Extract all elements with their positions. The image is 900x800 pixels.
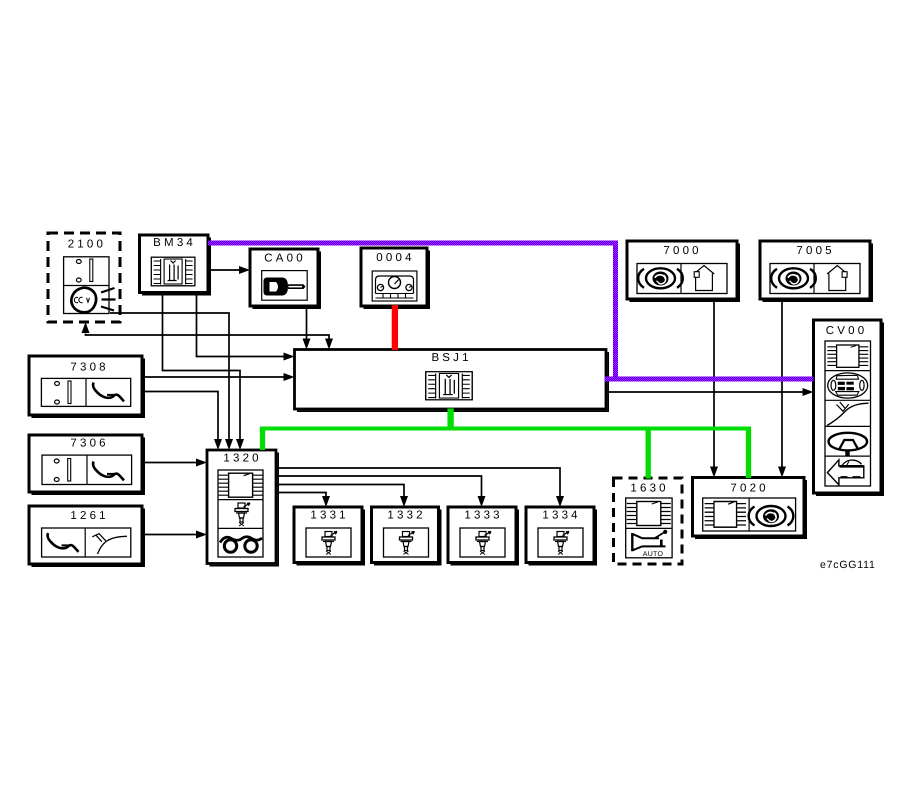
- svg-text:BM34: BM34: [153, 237, 196, 249]
- svg-text:1320: 1320: [223, 453, 261, 465]
- wire 1320 to injector 1333: [276, 476, 486, 507]
- siren control unit 7020: [693, 478, 807, 539]
- bonnet switch unit 1261: [29, 506, 144, 566]
- fuel injector 1331: [294, 507, 364, 565]
- CAN wire (violet) BM34 / BSJ1 / CV00: [208, 241, 814, 380]
- svg-text:1261: 1261: [70, 510, 108, 522]
- CAN wire (green) BSJ1 to 1320 / 1630 / 7020: [260, 409, 751, 479]
- fuel injector 1332: [372, 507, 441, 565]
- wire 7308 to BSJ1 (left pin 2): [142, 373, 295, 381]
- svg-text:CV00: CV00: [826, 325, 868, 337]
- wire 1320 to injector 1331: [276, 493, 330, 508]
- wire 7005 to 7020: [778, 299, 786, 478]
- svg-text:e7cGG111: e7cGG111: [820, 559, 876, 571]
- svg-text:1333: 1333: [464, 510, 502, 522]
- svg-text:7308: 7308: [70, 362, 108, 374]
- instrument cluster 0004: [361, 248, 429, 308]
- svg-text:7306: 7306: [70, 438, 108, 450]
- svg-text:AUTO: AUTO: [643, 551, 664, 558]
- wire BSJ1 to CV00: [606, 388, 814, 396]
- wire 7306 to 1320 (left pin 1): [142, 459, 207, 467]
- fuel injector 1334: [526, 507, 596, 565]
- svg-text:1331: 1331: [310, 510, 348, 522]
- svg-text:1332: 1332: [387, 510, 425, 522]
- svg-text:1630: 1630: [630, 483, 668, 495]
- engine fusebox / battery unit BM34: [140, 235, 211, 295]
- wire 7308 to 1320 (pin 1): [142, 392, 222, 451]
- door switch unit 7306: [29, 435, 144, 494]
- wire CA00 to BSJ1 (top pin): [303, 306, 311, 350]
- svg-text:0004: 0004: [376, 252, 414, 264]
- wire BM34 to CA00: [208, 266, 250, 274]
- fuel injector 1333: [448, 507, 518, 565]
- anti-theft horn unit 1630 (dashed option box): [614, 478, 683, 564]
- ignition switch CA00: [250, 249, 320, 308]
- door switch unit 7308: [29, 356, 144, 417]
- wire BM34 to BSJ1 (left pin 1): [197, 293, 295, 361]
- engine ECU 1320: [207, 450, 278, 566]
- svg-text:1334: 1334: [542, 510, 580, 522]
- svg-text:7020: 7020: [730, 483, 768, 495]
- wire 2100 to BSJ1 (double arrow link): [82, 322, 334, 350]
- svg-text:CA00: CA00: [264, 253, 306, 265]
- horn / alarm unit 2100 (dashed option box): [48, 233, 120, 322]
- svg-text:BSJ1: BSJ1: [431, 352, 471, 364]
- svg-text:7000: 7000: [663, 245, 701, 257]
- wire 7000 to 7020: [710, 299, 718, 478]
- siren receiver unit 7000: [627, 241, 739, 301]
- svg-text:2100: 2100: [68, 239, 106, 251]
- wire BM34 to 1320 (pin 3): [163, 293, 245, 451]
- svg-text:7005: 7005: [796, 245, 834, 257]
- wire (red) 0004 to BSJ1: [392, 305, 398, 350]
- wire 1261 to 1320 (left pin 2): [142, 531, 207, 539]
- siren receiver unit 7005: [760, 241, 872, 301]
- steering column unit CV00: [814, 320, 884, 495]
- wire 1320 to injector 1334: [276, 468, 564, 507]
- wire 2100 to 1320 (pin 2): [110, 313, 233, 450]
- wire 1320 to injector 1332: [276, 485, 408, 508]
- built-in systems interface BSJ1: [295, 350, 609, 412]
